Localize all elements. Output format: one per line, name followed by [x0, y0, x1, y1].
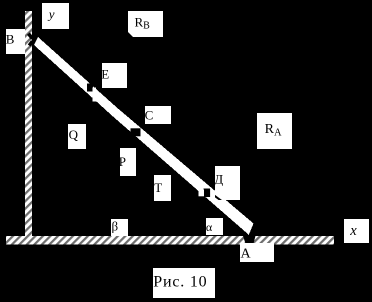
label box x: [344, 219, 369, 243]
svg-text:Д: Д: [214, 172, 223, 187]
wall (hatched vertical support): [25, 11, 32, 236]
notch on RB box corner: [128, 32, 134, 38]
white nub at D joint: [199, 190, 205, 197]
label box C: [145, 106, 171, 124]
caption box: [153, 268, 215, 298]
label box Q: [68, 124, 86, 149]
label box RB: [128, 11, 163, 37]
label box alpha: [206, 218, 223, 235]
force tick at E: [93, 88, 97, 102]
svg-text:β: β: [112, 219, 119, 234]
label box E: [102, 63, 127, 88]
svg-text:T: T: [154, 180, 162, 195]
floor (hatched ground): [6, 236, 334, 245]
black gap in floor at beam tip A: [243, 235, 256, 243]
label box B: [6, 29, 25, 54]
joint mark at E: [87, 84, 93, 92]
svg-text:P: P: [119, 154, 126, 169]
svg-text:C: C: [145, 107, 154, 122]
callout arrowhead to B over wall: [28, 34, 32, 39]
beam edge crossing D box corner: [214, 195, 226, 204]
svg-text:B: B: [6, 32, 15, 47]
svg-text:y: y: [47, 7, 55, 22]
joint mark at C: [131, 128, 141, 136]
beam BA: [34, 37, 254, 235]
label box T: [154, 175, 171, 201]
label box A: [240, 243, 274, 262]
label box y: [42, 3, 69, 29]
svg-text:Q: Q: [69, 127, 79, 142]
svg-text:α: α: [206, 220, 213, 234]
label box RA: [257, 113, 292, 149]
joint mark at D: [204, 189, 211, 198]
svg-text:A: A: [241, 247, 252, 262]
label box beta: [111, 219, 128, 236]
svg-text:x: x: [349, 223, 357, 239]
svg-text:E: E: [101, 67, 109, 82]
label box P: [120, 148, 136, 176]
svg-text:Рис. 10: Рис. 10: [153, 274, 207, 291]
label box D: [215, 166, 240, 200]
